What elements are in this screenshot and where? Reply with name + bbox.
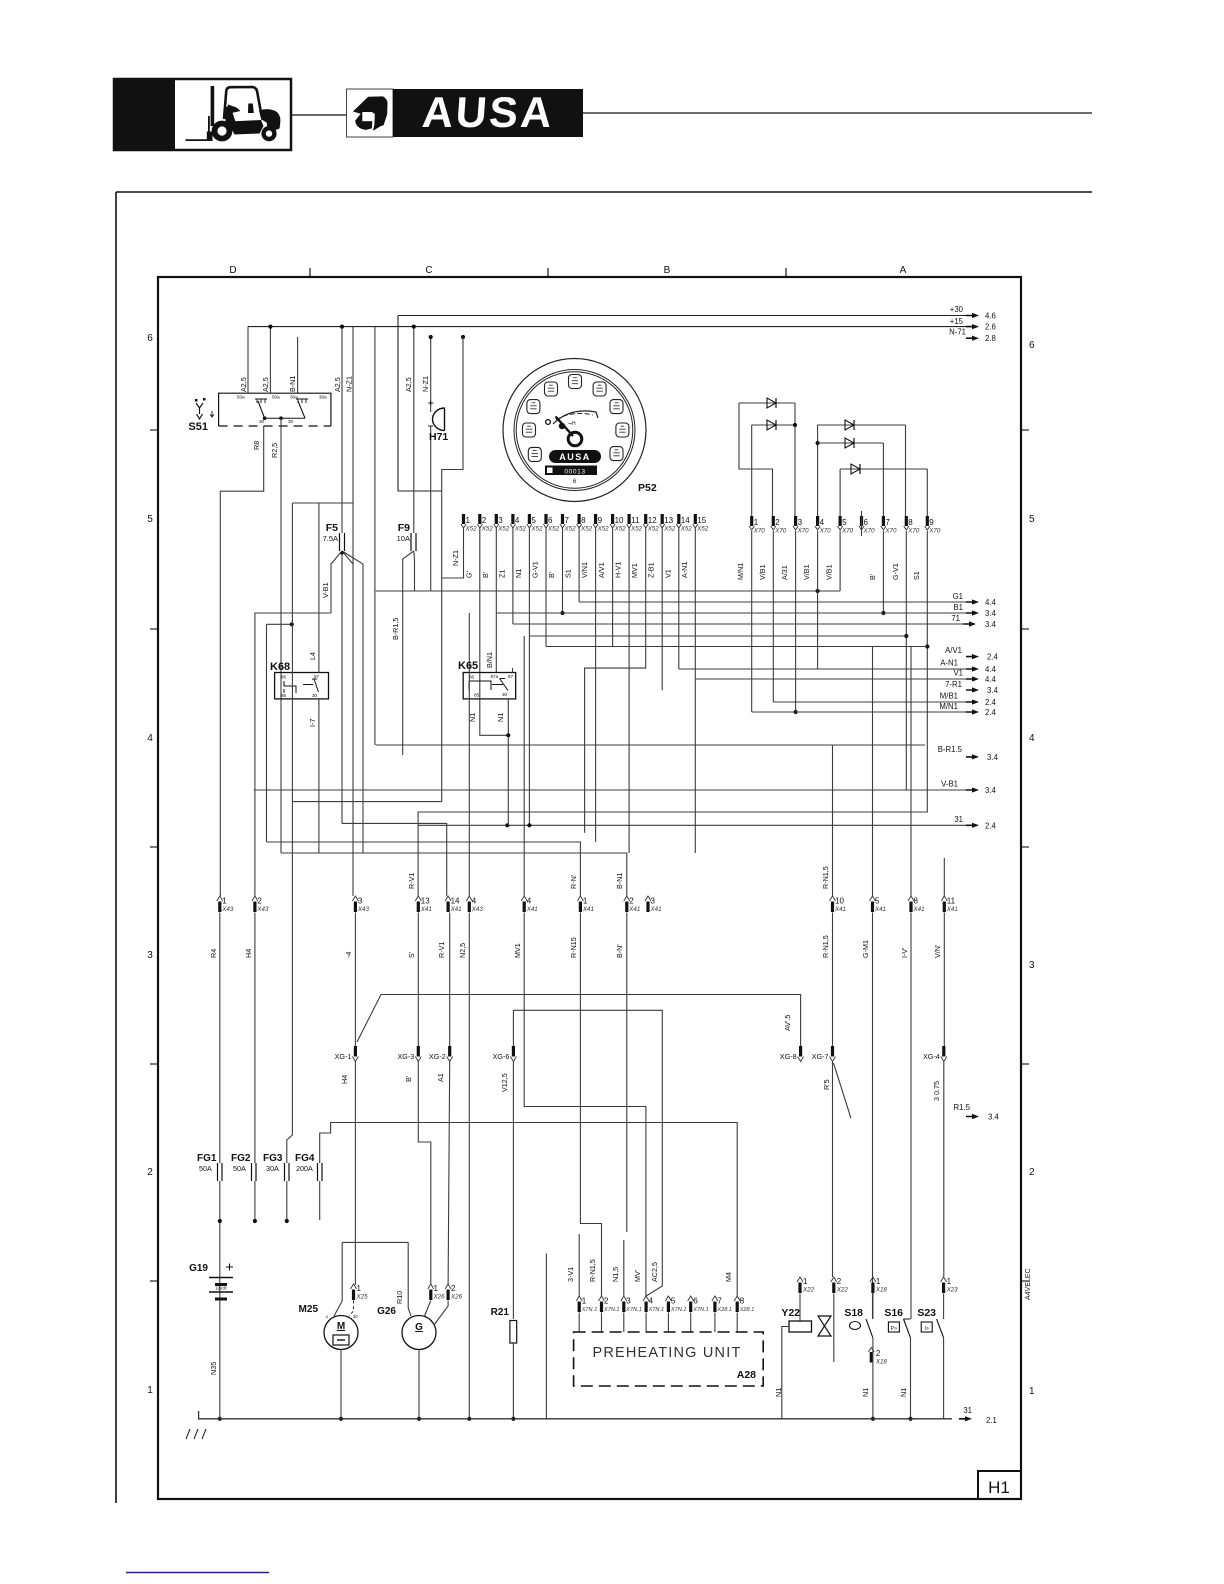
svg-text:A-N1: A-N1 bbox=[680, 562, 689, 578]
X52 pin8 wire S1 bbox=[578, 528, 580, 602]
svg-text:X41: X41 bbox=[526, 906, 538, 913]
svg-text:R1.5: R1.5 bbox=[954, 1103, 971, 1112]
svg-text:4: 4 bbox=[820, 518, 825, 527]
svg-text:A: A bbox=[900, 265, 907, 276]
wire X41-5 below to S18 column bbox=[872, 913, 874, 1320]
svg-text:7: 7 bbox=[565, 516, 570, 525]
net B-R1.5 line bbox=[376, 744, 925, 746]
svg-text:A2,5: A2,5 bbox=[261, 377, 270, 392]
connector pin 1 X41 bbox=[577, 896, 583, 901]
svg-text:2: 2 bbox=[876, 1349, 881, 1358]
svg-text:4: 4 bbox=[472, 897, 477, 906]
svg-text:XG-7: XG-7 bbox=[812, 1052, 829, 1061]
connector XG-1 bbox=[354, 1046, 357, 1057]
svg-text:2: 2 bbox=[604, 1297, 609, 1306]
svg-text:Z-B1: Z-B1 bbox=[647, 562, 656, 578]
svg-text:3.4: 3.4 bbox=[987, 686, 999, 695]
svg-text:V1: V1 bbox=[663, 569, 672, 578]
svg-text:H1: H1 bbox=[988, 1478, 1010, 1497]
svg-text:X43: X43 bbox=[221, 906, 234, 913]
svg-text:G-M1: G-M1 bbox=[861, 940, 870, 958]
svg-text:X70: X70 bbox=[907, 528, 920, 535]
wire XG-6 down to R21 bbox=[512, 1062, 514, 1320]
svg-text:MV1: MV1 bbox=[630, 563, 639, 578]
svg-text:A/V1: A/V1 bbox=[597, 562, 606, 578]
connector X22 pin2 bbox=[831, 1277, 837, 1282]
svg-text:3: 3 bbox=[651, 897, 656, 906]
wire XG-3 down jog to X26-1 bbox=[418, 1062, 431, 1286]
svg-text:I-7: I-7 bbox=[308, 719, 317, 727]
svg-text:P>: P> bbox=[891, 1326, 898, 1332]
XG-7 lever slant bbox=[834, 1063, 851, 1118]
bus junction X43-4 wire bbox=[467, 1417, 471, 1421]
wire K65 85 and 30 to N1 junction bbox=[480, 699, 509, 735]
diode D1 bbox=[739, 402, 795, 404]
wire X70-5 below pin bbox=[839, 531, 841, 591]
svg-text:-4: -4 bbox=[344, 952, 353, 958]
gauge odometer bbox=[545, 466, 597, 476]
svg-text:S1: S1 bbox=[912, 571, 921, 580]
X52 pin3 wire B prime to K65 bbox=[495, 528, 497, 673]
svg-text:M4: M4 bbox=[724, 1272, 733, 1282]
svg-text:1: 1 bbox=[754, 518, 759, 527]
svg-text:11: 11 bbox=[631, 516, 640, 525]
svg-text:A-N1: A-N1 bbox=[940, 659, 958, 668]
svg-text:3-V1: 3-V1 bbox=[566, 1267, 575, 1282]
wire A2.5 F5 feed bbox=[341, 327, 343, 533]
svg-text:N-Z1: N-Z1 bbox=[345, 376, 354, 392]
svg-text:F5: F5 bbox=[326, 522, 338, 534]
svg-text:R-V1: R-V1 bbox=[437, 942, 446, 958]
floating wire x546 bbox=[545, 1254, 547, 1419]
svg-text:200A: 200A bbox=[296, 1164, 313, 1173]
svg-text:2.8: 2.8 bbox=[985, 334, 996, 343]
ground bus 31 bbox=[199, 1411, 952, 1419]
svg-text:71: 71 bbox=[951, 614, 960, 623]
svg-text:3: 3 bbox=[147, 950, 153, 961]
connector pin 7 X28.1 bbox=[712, 1296, 718, 1301]
svg-text:2: 2 bbox=[629, 897, 634, 906]
net bus y591 to X70-4/5 bbox=[376, 590, 840, 592]
X52 pin7 wire B prime bbox=[562, 528, 564, 613]
X52 pin 1 bbox=[462, 514, 465, 524]
S51 switch levers bbox=[258, 401, 265, 418]
connector pin 3 X41 bbox=[645, 896, 651, 901]
connector X26 pin1 bbox=[428, 1284, 434, 1289]
X52 pin15 wire A-N1 to V1 line bbox=[694, 528, 696, 853]
connector pin 5 X41 bbox=[870, 896, 876, 901]
svg-text:1: 1 bbox=[357, 1284, 362, 1293]
svg-text:50A: 50A bbox=[199, 1164, 212, 1173]
wire X43-2 below to FG2 bbox=[254, 913, 256, 1164]
svg-text:5: 5 bbox=[875, 897, 880, 906]
connector pin 8 X28.1 bbox=[734, 1296, 740, 1301]
X70 pin 6 bbox=[860, 516, 863, 526]
X52 pin4 wire Z1 bbox=[512, 528, 514, 624]
svg-text:R-N15: R-N15 bbox=[569, 937, 578, 958]
svg-text:2: 2 bbox=[482, 516, 487, 525]
connector XG-7 bbox=[831, 1046, 834, 1057]
svg-text:31: 31 bbox=[963, 1406, 972, 1415]
net V-B1 line bbox=[254, 789, 966, 791]
svg-text:X52: X52 bbox=[547, 526, 560, 533]
svg-text:2: 2 bbox=[451, 1284, 456, 1293]
X70 pin 3 bbox=[794, 516, 797, 526]
svg-text:S18: S18 bbox=[844, 1307, 863, 1319]
svg-text:V/N': V/N' bbox=[933, 944, 942, 958]
svg-text:X7N.1: X7N.1 bbox=[648, 1307, 665, 1313]
svg-text:S23: S23 bbox=[917, 1307, 936, 1319]
svg-text:R8: R8 bbox=[252, 441, 261, 450]
X52 pin1 wire N-Z1 bend bbox=[442, 528, 464, 578]
frame row ticks bbox=[1021, 429, 1029, 431]
svg-text:N35: N35 bbox=[209, 1362, 218, 1375]
svg-text:R'5: R'5 bbox=[822, 1079, 831, 1090]
svg-text:XG-4: XG-4 bbox=[923, 1052, 940, 1061]
AUSA logo bbox=[347, 89, 584, 137]
wire M25 body to bus bbox=[340, 1350, 342, 1419]
svg-text:X41: X41 bbox=[420, 906, 432, 913]
svg-text:86: 86 bbox=[281, 675, 287, 680]
wire FG1 to battery junction bbox=[219, 1181, 221, 1419]
svg-text:2.4: 2.4 bbox=[987, 653, 999, 662]
svg-text:X23: X23 bbox=[946, 1287, 959, 1294]
svg-text:7.5A: 7.5A bbox=[323, 534, 338, 543]
svg-text:X43: X43 bbox=[256, 906, 269, 913]
wire X41-11 below to XG-4 bbox=[943, 913, 945, 1047]
svg-text:4.6: 4.6 bbox=[985, 312, 996, 321]
wire L4 to K68 87 bbox=[318, 503, 320, 673]
wire X70-8 below pin to V-B1 line bbox=[905, 531, 907, 790]
net M25-G26 charge link bbox=[342, 1241, 408, 1243]
svg-text:+15: +15 bbox=[950, 317, 964, 326]
svg-text:B-R1,5: B-R1,5 bbox=[391, 618, 400, 640]
svg-text:1: 1 bbox=[222, 897, 227, 906]
wire X70-1 below pin to M/N1 bbox=[751, 531, 753, 712]
svg-text:2.1: 2.1 bbox=[986, 1416, 997, 1425]
svg-text:+30: +30 bbox=[950, 305, 964, 314]
generator G26 bbox=[377, 1306, 436, 1350]
svg-text:9: 9 bbox=[929, 518, 934, 527]
svg-text:B': B' bbox=[481, 571, 490, 578]
connector XG-3 bbox=[417, 1046, 420, 1057]
svg-text:AV'.5: AV'.5 bbox=[783, 1015, 792, 1031]
svg-text:50a: 50a bbox=[272, 395, 280, 400]
wire N-Z1 column bbox=[352, 327, 354, 896]
connector X18 pin2 bbox=[870, 1352, 873, 1363]
relay K68 bbox=[270, 661, 329, 699]
connector pin 3 X7N.1 bbox=[621, 1296, 627, 1301]
svg-text:12Vdc: 12Vdc bbox=[215, 1286, 227, 1291]
svg-text:M25: M25 bbox=[299, 1304, 319, 1315]
svg-text:X41: X41 bbox=[450, 906, 462, 913]
title block H1 bbox=[978, 1471, 1021, 1499]
svg-text:X52: X52 bbox=[465, 526, 478, 533]
svg-text:30: 30 bbox=[312, 693, 318, 698]
svg-text:X7N.1: X7N.1 bbox=[603, 1307, 620, 1313]
svg-text:B': B' bbox=[868, 573, 877, 580]
connector pin 2 X43 bbox=[252, 896, 258, 901]
F5 output fan wires bbox=[331, 551, 342, 613]
wire X43-3 below to XG-1 bbox=[354, 913, 356, 1047]
svg-text:N1: N1 bbox=[496, 713, 505, 722]
wire S16 to bus bbox=[910, 1338, 912, 1419]
svg-text:A28: A28 bbox=[737, 1369, 756, 1381]
svg-text:6: 6 bbox=[1029, 340, 1035, 351]
svg-text:V/B1: V/B1 bbox=[758, 564, 767, 580]
net M/B1 line bbox=[773, 701, 966, 703]
svg-text:X25: X25 bbox=[356, 1294, 369, 1301]
X52 pin 11 bbox=[628, 514, 631, 524]
svg-text:M: M bbox=[337, 1321, 345, 1332]
svg-text:A2,5: A2,5 bbox=[239, 377, 248, 392]
svg-text:2: 2 bbox=[837, 1277, 842, 1286]
net XG-1 to XG-8 loop bbox=[357, 995, 801, 1047]
svg-text:X70: X70 bbox=[753, 528, 766, 535]
X52 pin 13 bbox=[661, 514, 664, 524]
svg-text:K65: K65 bbox=[458, 660, 478, 672]
net V1 line bbox=[695, 678, 966, 680]
net y802 link bbox=[292, 801, 441, 803]
svg-text:R2,5: R2,5 bbox=[270, 443, 279, 458]
net +30 bus bbox=[398, 315, 972, 317]
S18 lever bbox=[872, 1294, 874, 1320]
connector pin 8 X41 bbox=[908, 896, 914, 901]
svg-text:V1: V1 bbox=[953, 669, 963, 678]
wire preheat pin3 stub bbox=[623, 1240, 625, 1296]
svg-text:N1: N1 bbox=[774, 1388, 783, 1397]
svg-text:12: 12 bbox=[648, 516, 657, 525]
svg-text:5: 5 bbox=[531, 516, 536, 525]
connector X18 pin1 bbox=[870, 1277, 876, 1282]
svg-text:2: 2 bbox=[147, 1167, 153, 1178]
svg-text:10: 10 bbox=[615, 516, 624, 525]
svg-text:8: 8 bbox=[914, 897, 919, 906]
svg-text:XG-1: XG-1 bbox=[335, 1052, 352, 1061]
fuse F9 10A bbox=[397, 522, 416, 551]
svg-text:30: 30 bbox=[288, 419, 294, 424]
wire jog from 463 bbox=[442, 337, 463, 802]
svg-text:3.4: 3.4 bbox=[985, 609, 997, 618]
wire X70-7 below pin to B1 line bbox=[882, 531, 884, 613]
svg-text:X41: X41 bbox=[650, 906, 662, 913]
svg-text:FG2: FG2 bbox=[231, 1153, 251, 1164]
X70 pin 1 bbox=[750, 516, 753, 526]
wire XG-4 down to X23-1 bbox=[943, 1062, 945, 1278]
horn H71 bbox=[428, 401, 448, 444]
svg-text:A4VELEC: A4VELEC bbox=[1025, 1268, 1032, 1300]
F9 output wires bbox=[403, 551, 414, 755]
svg-text:G: G bbox=[415, 1322, 423, 1333]
X52 pin 2 bbox=[478, 514, 481, 524]
wire Y22 to bus bbox=[782, 1327, 789, 1419]
X26 leads into G26 bbox=[425, 1301, 431, 1317]
svg-text:XG-6: XG-6 bbox=[493, 1052, 510, 1061]
svg-text:G19: G19 bbox=[189, 1263, 208, 1274]
svg-text:10: 10 bbox=[835, 897, 844, 906]
svg-text:4: 4 bbox=[649, 1297, 654, 1306]
svg-text:B': B' bbox=[547, 571, 556, 578]
svg-text:7: 7 bbox=[885, 518, 890, 527]
svg-text:MV1: MV1 bbox=[513, 943, 522, 958]
wire V-B1 route to X43-2 bbox=[255, 613, 331, 896]
svg-text:8: 8 bbox=[740, 1297, 745, 1306]
frame column ticks bbox=[309, 268, 311, 277]
diode D3 row bbox=[818, 424, 906, 426]
valve hourglass symbol bbox=[818, 1316, 831, 1336]
svg-text:7: 7 bbox=[717, 1297, 722, 1306]
svg-text:4.4: 4.4 bbox=[985, 665, 997, 674]
svg-text:4: 4 bbox=[147, 733, 153, 744]
svg-text:N1: N1 bbox=[514, 569, 523, 578]
svg-text:G26: G26 bbox=[377, 1306, 396, 1317]
svg-text:R-N1,5: R-N1,5 bbox=[821, 866, 830, 889]
svg-text:N-Z1: N-Z1 bbox=[451, 550, 460, 566]
wire X43-4 below to bottom bus bbox=[468, 913, 470, 1419]
connector X22 pin1 bbox=[797, 1277, 803, 1282]
wire X41-4 below MV1 route to preheat pin4 bbox=[524, 913, 646, 1297]
wire XG-2 down to X26-2 bbox=[448, 1062, 450, 1286]
svg-text:1: 1 bbox=[147, 1385, 153, 1396]
svg-text:H4: H4 bbox=[244, 949, 253, 958]
svg-text:R-N1,5: R-N1,5 bbox=[588, 1259, 597, 1282]
wire X70-2 below pin to M/B1 bbox=[772, 531, 774, 702]
svg-text:AUSA: AUSA bbox=[559, 452, 591, 462]
X52 pin10 wire A/V1 bbox=[612, 528, 614, 647]
X52 pin 8 bbox=[578, 514, 581, 524]
svg-text:G-V1: G-V1 bbox=[891, 563, 900, 580]
svg-text:R-V1: R-V1 bbox=[407, 873, 416, 889]
net FG4 to preheat M4 line bbox=[320, 1123, 738, 1297]
svg-text:X52: X52 bbox=[580, 526, 593, 533]
wire D5 left leg to X70-5 bbox=[839, 469, 841, 517]
svg-text:2.4: 2.4 bbox=[985, 821, 997, 830]
svg-text:M/N1: M/N1 bbox=[939, 702, 958, 711]
net +15 bus bbox=[248, 326, 972, 328]
connector pin 4 X41 bbox=[521, 896, 527, 901]
svg-text:XG-2: XG-2 bbox=[429, 1052, 446, 1061]
svg-text:30a: 30a bbox=[319, 395, 327, 400]
svg-text:5: 5 bbox=[671, 1297, 676, 1306]
net +30 corner drop bbox=[398, 316, 442, 492]
wire XG-7 down to X22-2 bbox=[832, 1062, 834, 1278]
X52 pin 6 bbox=[544, 514, 547, 524]
svg-text:30A: 30A bbox=[266, 1164, 279, 1173]
svg-text:6: 6 bbox=[548, 516, 553, 525]
header rule line bbox=[291, 114, 346, 116]
svg-text:3: 3 bbox=[798, 518, 803, 527]
svg-text:X41: X41 bbox=[913, 906, 925, 913]
svg-text:A2,5: A2,5 bbox=[333, 377, 342, 392]
svg-text:B1: B1 bbox=[953, 603, 963, 612]
S51 internal link bbox=[265, 417, 305, 419]
svg-text:10A: 10A bbox=[397, 534, 410, 543]
svg-text:N2,5: N2,5 bbox=[458, 943, 467, 958]
connector pin 13 X41 bbox=[415, 896, 421, 901]
svg-text:R-N': R-N' bbox=[569, 874, 578, 889]
wire X70-1 up leg bbox=[751, 425, 753, 517]
svg-text:FG4: FG4 bbox=[295, 1153, 315, 1164]
connector X23 pin1 bbox=[941, 1277, 947, 1282]
connector pin 5 X7N.1 bbox=[665, 1296, 671, 1301]
svg-text:4: 4 bbox=[515, 516, 520, 525]
wire D1 left leg to X70-2 bbox=[739, 403, 773, 517]
connector XG-4 bbox=[942, 1046, 945, 1057]
X52 pin12 wire MV1 bbox=[585, 528, 646, 833]
X52 pin9 wire V/N1 bbox=[595, 528, 597, 842]
svg-text:X18: X18 bbox=[875, 1287, 888, 1294]
drawing frame outer border bbox=[116, 191, 1092, 193]
svg-text:3.4: 3.4 bbox=[985, 786, 997, 795]
X52 pin 15 bbox=[694, 514, 697, 524]
X52 pin2 wire G prime down to K65 area bbox=[479, 528, 481, 699]
wire G26 body to bus bbox=[418, 1350, 420, 1419]
svg-text:X22: X22 bbox=[802, 1287, 815, 1294]
svg-text:85: 85 bbox=[474, 693, 480, 698]
X70 pin 7 bbox=[882, 516, 885, 526]
net line y636 bbox=[529, 635, 906, 637]
svg-text:5: 5 bbox=[147, 514, 153, 525]
svg-text:X70: X70 bbox=[774, 528, 787, 535]
svg-text:H-V1: H-V1 bbox=[614, 562, 623, 578]
wire S51 branch to K68 coil bbox=[267, 623, 292, 625]
svg-text:4: 4 bbox=[527, 897, 532, 906]
connector X25 pin1 bbox=[351, 1284, 357, 1289]
svg-text:V12,5: V12,5 bbox=[500, 1073, 509, 1092]
connector XG-2 bbox=[448, 1046, 451, 1057]
svg-text:M/B1: M/B1 bbox=[940, 692, 958, 701]
svg-text:X52: X52 bbox=[663, 526, 676, 533]
svg-text:D: D bbox=[229, 265, 236, 276]
net y503 link bbox=[292, 502, 353, 504]
svg-text:3: 3 bbox=[498, 516, 503, 525]
X52 pin5 wire N1 to ground net bbox=[528, 528, 530, 825]
fuse F5 7.5A bbox=[323, 522, 345, 551]
svg-text:3: 3 bbox=[358, 897, 363, 906]
X52 pin 4 bbox=[511, 514, 514, 524]
X52 pin11 wire H-V1 bbox=[628, 528, 630, 853]
svg-text:X70: X70 bbox=[928, 528, 941, 535]
wire A2.5 S51 feed 2 bbox=[269, 327, 271, 393]
svg-text:6: 6 bbox=[147, 333, 153, 344]
svg-text:R10: R10 bbox=[395, 1291, 404, 1304]
wire K68 86 leg down bbox=[266, 624, 268, 842]
svg-text:V-B1: V-B1 bbox=[321, 582, 330, 598]
wire X43-1 below to FG1 bbox=[219, 913, 221, 1164]
svg-text:F9: F9 bbox=[398, 522, 410, 534]
svg-text:I>: I> bbox=[924, 1326, 928, 1332]
svg-text:4.4: 4.4 bbox=[985, 598, 997, 607]
connector pin 11 X41 bbox=[941, 896, 947, 901]
svg-text:B: B bbox=[664, 265, 671, 276]
svg-text:X7N.1: X7N.1 bbox=[692, 1307, 709, 1313]
wire FG3 end dot bbox=[286, 1181, 288, 1221]
gauge AUSA badge bbox=[549, 450, 601, 463]
svg-text:87: 87 bbox=[314, 674, 320, 679]
svg-text:XG-3: XG-3 bbox=[398, 1052, 415, 1061]
X52 pin 14 bbox=[677, 514, 680, 524]
wire X43-4 above pin bbox=[468, 613, 470, 896]
svg-text:Z1: Z1 bbox=[497, 570, 506, 578]
svg-text:6: 6 bbox=[693, 1297, 698, 1306]
svg-text:L4: L4 bbox=[308, 652, 317, 660]
battery G19 bbox=[189, 1263, 233, 1299]
X52 pin6 wire G-V1 bbox=[545, 528, 547, 647]
diode D5 bbox=[840, 468, 927, 470]
svg-text:A1: A1 bbox=[436, 1073, 445, 1082]
svg-text:X52: X52 bbox=[497, 526, 510, 533]
svg-text:V/B1: V/B1 bbox=[802, 564, 811, 580]
